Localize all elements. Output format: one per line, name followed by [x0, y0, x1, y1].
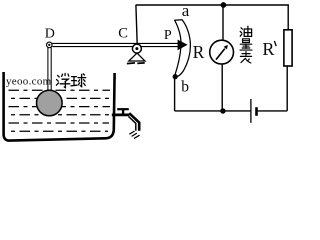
svg-text:R: R [193, 42, 205, 62]
svg-text:R: R [262, 39, 274, 59]
svg-text:b: b [181, 78, 189, 95]
svg-text:a: a [182, 1, 190, 20]
svg-text:yeoo.com: yeoo.com [6, 76, 52, 88]
svg-text:C: C [118, 25, 128, 41]
svg-text:D: D [45, 26, 55, 41]
svg-text:P: P [164, 28, 172, 43]
